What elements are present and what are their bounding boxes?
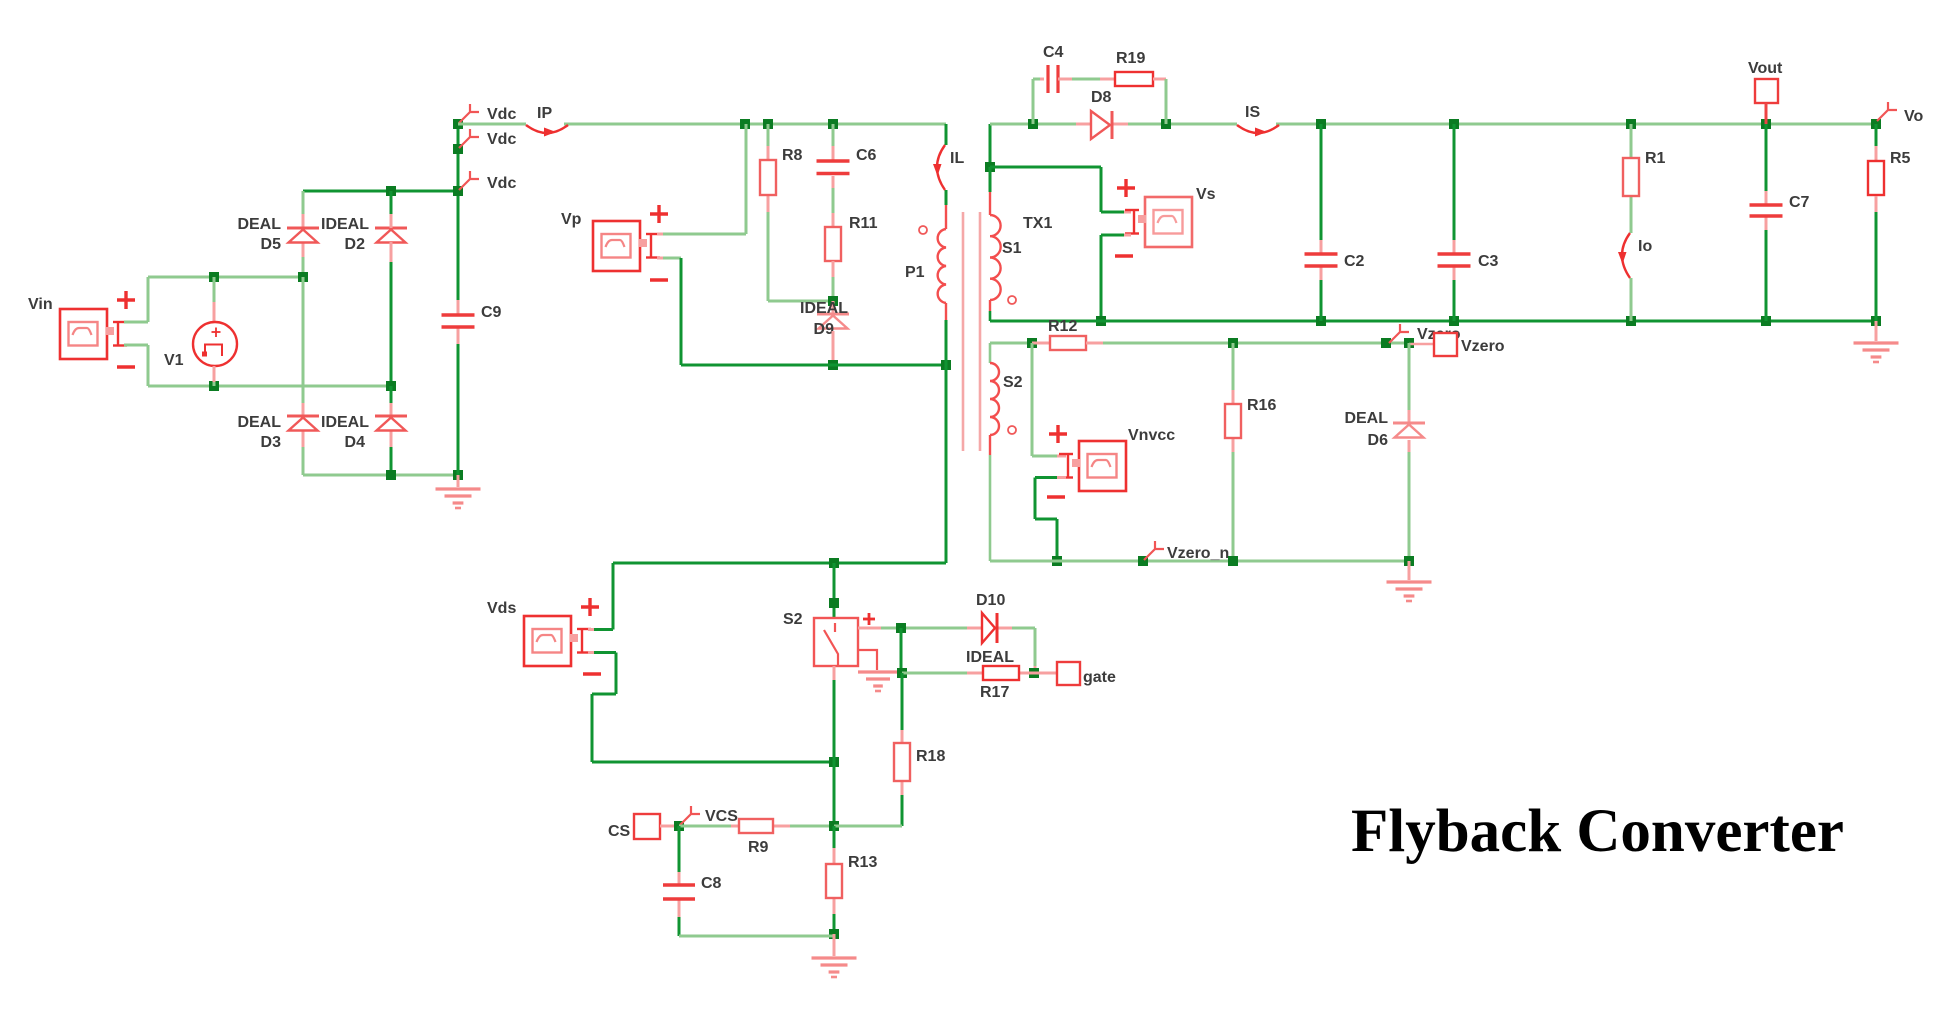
wire gate pad link [1034, 672, 1057, 675]
pin Vdc 3 [459, 171, 516, 192]
plus sign Vin [117, 291, 135, 309]
junction D6 bottom [1404, 556, 1414, 566]
svg-text:IDEAL: IDEAL [321, 414, 369, 431]
wire R5 stub [1875, 124, 1878, 161]
junction D9 anode... R11 [828, 296, 838, 306]
junction Vds-source [829, 757, 839, 767]
svg-text:Vout: Vout [1748, 60, 1783, 77]
svg-text:Io: Io [1638, 238, 1652, 255]
junction D6 top [1404, 338, 1414, 348]
svg-text:Vnvcc: Vnvcc [1128, 427, 1175, 444]
wire Vp plus [663, 124, 746, 234]
wire ctrl node [881, 627, 967, 630]
wire R5 gnd stub [1875, 321, 1878, 341]
plus sign Vnvcc [1049, 425, 1067, 443]
wire R9 stubs [731, 825, 739, 828]
svg-text:C7: C7 [1789, 194, 1810, 211]
junction snubber right [1161, 119, 1171, 129]
svg-text:Vin: Vin [28, 296, 53, 313]
plus sign Vs [1117, 179, 1135, 197]
wire S2 drain [833, 563, 836, 618]
diode D10 [966, 592, 1014, 666]
junction C3 bottom [1449, 316, 1459, 326]
resistor R1 [1623, 150, 1666, 196]
wire VCS to R18 [834, 825, 902, 828]
wire Vnvcc minus [1035, 478, 1057, 562]
svg-text:IL: IL [950, 150, 964, 167]
svg-text:D10: D10 [976, 592, 1005, 609]
ground aux [1387, 582, 1432, 601]
ammeter IP [526, 105, 568, 137]
wire R17 row [902, 672, 967, 675]
junction C2 top [1316, 119, 1326, 129]
diode D2 [321, 216, 407, 253]
capacitor C7 [1750, 194, 1810, 216]
junction VCS [674, 821, 684, 831]
wire aux bottom [990, 560, 1409, 563]
svg-text:IS: IS [1245, 104, 1260, 121]
svg-text:C9: C9 [481, 304, 502, 321]
diode D9 [800, 300, 849, 338]
junction Io bottom [1626, 316, 1636, 326]
wire gate stub v [1034, 666, 1037, 673]
voltage probe Vds [487, 600, 591, 666]
wire C6 column [832, 124, 835, 227]
voltage probe Vin [28, 296, 127, 359]
wire S1 to Vs [990, 167, 1124, 212]
ground S2 source [858, 672, 898, 691]
svg-text:R13: R13 [848, 854, 877, 871]
ground bridge [436, 489, 481, 508]
svg-text:S2: S2 [1003, 374, 1023, 391]
svg-text:R9: R9 [748, 839, 769, 856]
voltage probe Vp [561, 211, 660, 271]
pad Vzero [1434, 333, 1505, 356]
svg-text:R18: R18 [916, 748, 945, 765]
wire Vds minus [592, 653, 834, 763]
wire C4 to R19 [1072, 78, 1100, 81]
svg-text:Vp: Vp [561, 211, 582, 228]
core TX1 [963, 212, 1052, 451]
wire top right [990, 123, 1876, 126]
junction R16 top [1228, 338, 1238, 348]
pad Vout [1748, 60, 1783, 103]
ammeter IS [1237, 104, 1279, 137]
wire top left [458, 123, 946, 126]
capacitor C2 [1305, 253, 1365, 270]
svg-text:D8: D8 [1091, 89, 1112, 106]
svg-text:Vdc: Vdc [487, 175, 516, 192]
wire ctrl to R17 [900, 628, 903, 673]
svg-text:DEAL: DEAL [237, 216, 281, 233]
plus sign Vp [650, 205, 668, 223]
svg-text:R1: R1 [1645, 150, 1666, 167]
svg-text:C6: C6 [856, 147, 877, 164]
diode D5 [237, 216, 319, 253]
diode D4 [321, 414, 407, 451]
wire R17 stubs [967, 672, 983, 675]
winding S1 [990, 167, 1022, 321]
wire S2 ctrl stub [858, 627, 881, 630]
wire S1 top [989, 124, 992, 167]
junction bridge top Vdc [453, 186, 463, 196]
wire D10 stubs [967, 627, 982, 630]
junction S2 drain [829, 598, 839, 608]
resistor R16 [1225, 397, 1276, 438]
svg-text:C3: C3 [1478, 253, 1499, 270]
wire Vp minus stub [657, 257, 663, 260]
wire R9 to R13 [790, 825, 834, 828]
diode D6 [1344, 410, 1425, 449]
wire AC bottom [148, 385, 391, 388]
wire S2 top [990, 342, 1032, 345]
junction Vout [1761, 119, 1771, 129]
wire D9 bottom [832, 331, 835, 365]
svg-text:VCS: VCS [705, 808, 738, 825]
resistor R11 [825, 215, 878, 261]
resistor R13 [826, 854, 877, 898]
junction Vdc 1 [453, 119, 463, 129]
wire R8 column [768, 124, 833, 301]
svg-text:R8: R8 [782, 147, 803, 164]
junction P1 bottom [941, 360, 951, 370]
wire CS stub [660, 825, 679, 828]
svg-text:DEAL: DEAL [1344, 410, 1388, 427]
wire R13 column [833, 826, 836, 934]
pin Vdc 1 [459, 104, 516, 123]
wire Vnvcc plus stub [1057, 455, 1066, 458]
junction V1 top [209, 272, 219, 282]
junction ctrl [896, 623, 906, 633]
wire Vout stub [1765, 103, 1768, 124]
wire Vnvcc minus stub [1057, 476, 1066, 479]
junction bridge bottom D4 [386, 470, 396, 480]
pin Vzero_n [1144, 541, 1229, 562]
wire C9 gnd stub [457, 475, 460, 487]
wire P1 to drain [945, 320, 948, 563]
svg-text:S2: S2 [783, 611, 803, 628]
svg-text:Vzero_n: Vzero_n [1167, 545, 1229, 562]
wire R13 gnd stub [833, 934, 836, 956]
wire Vs plus stub [1124, 211, 1131, 214]
junction R13 bottom [829, 929, 839, 939]
wire to Vnvcc plus [1032, 343, 1057, 456]
svg-text:R5: R5 [1890, 150, 1911, 167]
wire snubber down [1165, 79, 1168, 124]
svg-text:Vdc: Vdc [487, 131, 516, 148]
junction gate [1029, 668, 1039, 678]
svg-text:R17: R17 [980, 684, 1009, 701]
capacitor C4 [1040, 44, 1072, 93]
pin Vo [1877, 102, 1923, 125]
resistor R17 [980, 666, 1019, 701]
junction Vdc 3 [453, 186, 463, 196]
wire D5 column [302, 191, 305, 277]
ground output [1854, 343, 1899, 362]
wire R16 column [1232, 343, 1235, 561]
switch S2 [783, 611, 858, 666]
pin VCS [680, 806, 738, 825]
wire D6 column [1408, 343, 1411, 561]
svg-text:DEAL: DEAL [237, 414, 281, 431]
wire C7 column [1765, 124, 1768, 321]
svg-text:Vo: Vo [1904, 108, 1923, 125]
svg-text:P1: P1 [905, 264, 925, 281]
svg-text:R16: R16 [1247, 397, 1276, 414]
voltage probe Vs [1125, 186, 1216, 247]
svg-text:IDEAL: IDEAL [966, 649, 1014, 666]
plus sign S2 gate [863, 613, 875, 625]
wire primary bottom [681, 364, 946, 367]
voltage probe Vnvcc [1059, 427, 1175, 491]
wire Vin plus [124, 277, 148, 322]
minus sign Vin [117, 365, 135, 368]
junction bridge top D2 [386, 186, 396, 196]
wire D9 stub top [832, 301, 835, 314]
svg-text:D3: D3 [261, 434, 282, 451]
wire secondary bottom [990, 320, 1876, 323]
junction bridge bottom gnd [453, 470, 463, 480]
ground switch [812, 958, 857, 977]
pad CS [608, 814, 660, 840]
junction snubber left [1028, 119, 1038, 129]
svg-text:IDEAL: IDEAL [800, 300, 848, 317]
wire Vp minus [663, 258, 681, 365]
junction R13 top [829, 821, 839, 831]
wire D2 column [390, 191, 393, 386]
wire snubber up [1033, 79, 1040, 124]
junction C3 top [1449, 119, 1459, 129]
wire Vdc bus [457, 124, 460, 475]
svg-text:R11: R11 [849, 215, 878, 232]
wire Vds plus [594, 563, 613, 630]
wire C8 column [679, 826, 834, 936]
pin Vdc 2 [459, 129, 516, 148]
wire Vds minus stub [588, 651, 594, 654]
junction S1 top [985, 162, 995, 172]
resistor R18 [894, 743, 945, 781]
junction R8 top [763, 119, 773, 129]
wire D10 to gate [1012, 628, 1035, 666]
svg-text:D4: D4 [345, 434, 366, 451]
wire Vin minus [124, 345, 148, 386]
svg-text:Vs: Vs [1196, 186, 1216, 203]
winding S2 [990, 343, 1023, 561]
wire R18 column [901, 673, 904, 826]
capacitor C8 [663, 875, 722, 899]
wire bridge bottom [303, 474, 458, 477]
junction C7 bottom [1761, 316, 1771, 326]
wire D3 column [302, 277, 305, 475]
resistor R5 [1868, 150, 1911, 195]
wire R19 stub [1100, 78, 1115, 81]
wire Vs minus [1101, 235, 1124, 321]
svg-text:Vdc: Vdc [487, 106, 516, 123]
pad gate [1057, 662, 1116, 686]
capacitor C3 [1438, 253, 1499, 270]
junction D9 cathode [828, 360, 838, 370]
junction C2 bottom [1316, 316, 1326, 326]
wire C3 column [1453, 124, 1456, 321]
svg-text:D2: D2 [345, 236, 366, 253]
svg-text:Vzero: Vzero [1461, 338, 1505, 355]
minus sign Vp [650, 278, 668, 281]
svg-text:R19: R19 [1116, 50, 1145, 67]
junction Vnvcc minus [1052, 556, 1062, 566]
junction Vo [1871, 119, 1881, 129]
capacitor C6 [817, 147, 877, 174]
svg-text:V1: V1 [164, 352, 184, 369]
winding P1 [905, 205, 946, 320]
resistor R12 [1048, 318, 1086, 350]
wire R19 right stub [1153, 78, 1166, 81]
minus sign Vnvcc [1047, 495, 1065, 498]
svg-text:D9: D9 [814, 321, 835, 338]
wire Vp plus stub [657, 233, 663, 236]
wire Vzero pad link [1409, 343, 1434, 345]
minus sign Vs [1115, 254, 1133, 257]
wire C2 column [1320, 124, 1323, 321]
wire S2 bottom [833, 666, 836, 826]
junction D5 anode [298, 272, 308, 282]
svg-text:CS: CS [608, 823, 631, 840]
wire Vs minus stub [1124, 234, 1131, 237]
wire R1 column [1630, 124, 1633, 321]
wire aux rail [1103, 342, 1409, 345]
junction AC2 [386, 381, 396, 391]
junction R5 bottom [1871, 316, 1881, 326]
junction Vzero_n [1138, 556, 1148, 566]
pin Vzero [1389, 324, 1461, 343]
junction drain [829, 558, 839, 568]
wire P1 top [945, 124, 948, 205]
svg-text:C4: C4 [1043, 44, 1064, 61]
wire R11 bottom [832, 261, 835, 296]
svg-text:C2: C2 [1344, 253, 1365, 270]
ammeter IL [933, 145, 964, 190]
wire R12 stub right [1086, 342, 1103, 345]
svg-text:IDEAL: IDEAL [321, 216, 369, 233]
plus sign Vds [581, 598, 599, 616]
wire D8 stubs [1076, 123, 1091, 126]
ammeter Io [1618, 233, 1652, 278]
diode D3 [237, 414, 319, 451]
resistor R9 [739, 819, 773, 856]
svg-text:D5: D5 [261, 236, 282, 253]
junction Vdc 2 [453, 144, 463, 154]
capacitor C9 [442, 304, 502, 327]
svg-text:TX1: TX1 [1023, 215, 1052, 232]
junction R17 left [897, 668, 907, 678]
svg-text:IP: IP [537, 105, 552, 122]
wire drain rail [613, 562, 946, 565]
svg-text:S1: S1 [1002, 240, 1022, 257]
wire AC top [148, 276, 303, 279]
wire R5 bottom [1875, 196, 1878, 321]
svg-text:Flyback Converter: Flyback Converter [1351, 798, 1844, 865]
resistor R8 [760, 147, 803, 195]
junction V1 bottom [209, 381, 219, 391]
wire Vds plus stub [588, 628, 594, 631]
diode D8 [1091, 89, 1112, 139]
svg-text:R12: R12 [1048, 318, 1077, 335]
junction Vzero pin [1381, 338, 1391, 348]
junction R12 left [1027, 338, 1037, 348]
wire VCS row [679, 825, 731, 828]
voltage source V1 [164, 277, 237, 386]
svg-text:C8: C8 [701, 875, 722, 892]
junction Vs minus [1096, 316, 1106, 326]
wire R12 stub left [1032, 342, 1050, 345]
svg-text:gate: gate [1083, 669, 1116, 686]
svg-text:D6: D6 [1368, 432, 1389, 449]
junction Vp branch [740, 119, 750, 129]
wire D4 column [390, 386, 393, 475]
junction R1 top [1626, 119, 1636, 129]
wire S2 source [858, 650, 877, 670]
junction C6 top [828, 119, 838, 129]
junction R16 bottom [1228, 556, 1238, 566]
svg-text:Vds: Vds [487, 600, 516, 617]
wire bridge top [303, 190, 458, 193]
resistor R19 [1115, 50, 1153, 86]
minus sign Vds [583, 672, 601, 675]
wire D6 gnd stub [1408, 561, 1411, 580]
